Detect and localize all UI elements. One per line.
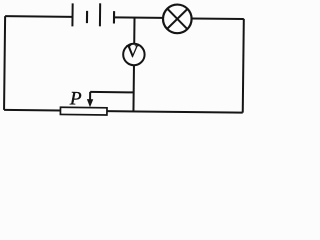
wire rheostat to bottom-left corner [4,109,60,112]
wire top-left (battery negative to top-left corner) [5,15,72,18]
wire voltmeter to wiper junction and bottom wire [132,65,135,111]
node A (junction top wire / voltmeter branch) [133,18,135,44]
battery plate long 2 [99,3,101,26]
svg-text:P: P [69,88,82,109]
voltmeter V [123,44,145,66]
wire battery to lamp (through node A) [114,16,162,19]
battery plate long 1 [71,3,73,26]
wiper arrow head [87,99,93,107]
lamp L [163,4,192,33]
voltmeter circle [123,44,145,66]
wiper arrow [87,92,94,107]
battery (two cells) [72,3,114,27]
wire left side [4,16,5,110]
wire lamp to top-right corner [192,17,244,20]
wire right side [243,19,244,113]
wiper arrow shaft [89,92,91,100]
wire bottom-right to rheostat [107,111,243,113]
lamp X diagonal 2 [167,9,187,29]
lamp X diagonal 1 [167,9,187,29]
svg-text:V: V [126,41,139,61]
battery plate short 2 [113,11,115,23]
rheostat P body [60,107,107,115]
battery plate short 1 [86,11,88,23]
wire wiper branch horizontal [90,91,133,93]
lamp circle [163,4,192,33]
